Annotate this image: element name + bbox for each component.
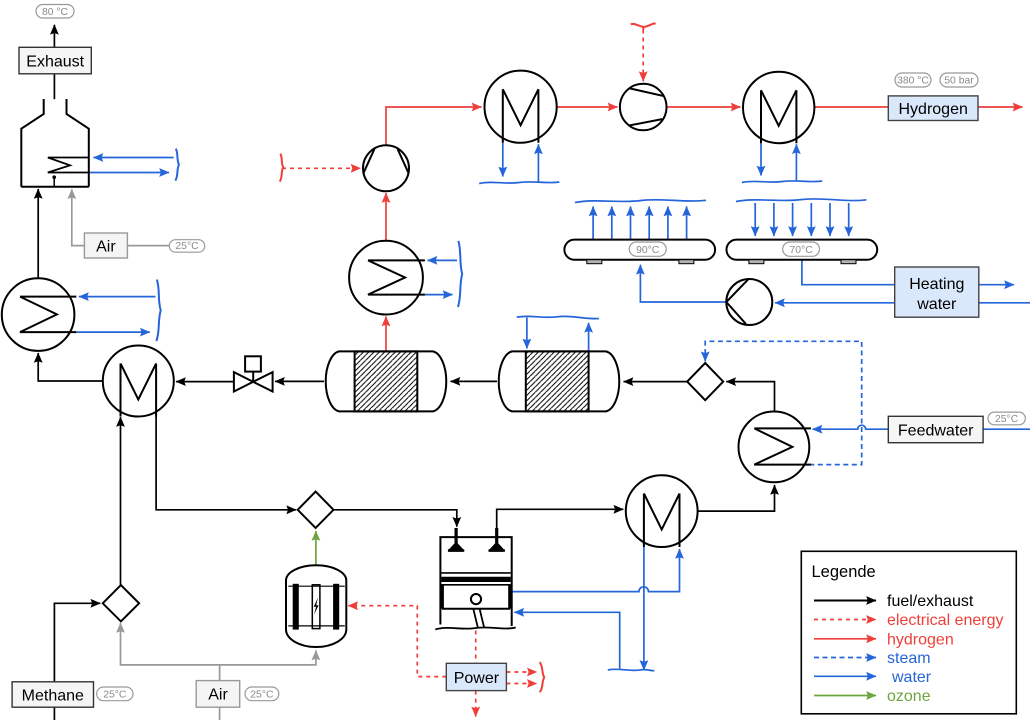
svg-text:25°C: 25°C xyxy=(175,241,199,252)
svg-text:Legende: Legende xyxy=(812,563,876,581)
svg-text:Hydrogen: Hydrogen xyxy=(899,101,968,118)
svg-text:fuel/exhaust: fuel/exhaust xyxy=(887,593,974,610)
svg-text:Air: Air xyxy=(96,239,116,256)
svg-text:380 °C: 380 °C xyxy=(897,76,929,87)
svg-text:Feedwater: Feedwater xyxy=(898,423,974,440)
svg-text:water: water xyxy=(916,296,957,313)
svg-text:Heating: Heating xyxy=(909,276,964,293)
svg-text:25°C: 25°C xyxy=(250,689,274,700)
svg-text:water: water xyxy=(891,669,932,686)
svg-text:Methane: Methane xyxy=(22,688,84,705)
svg-text:Power: Power xyxy=(454,670,500,687)
svg-text:ozone: ozone xyxy=(887,688,931,705)
svg-text:hydrogen: hydrogen xyxy=(887,631,954,648)
svg-text:50 bar: 50 bar xyxy=(944,76,974,87)
svg-text:25°C: 25°C xyxy=(995,414,1019,425)
svg-text:steam: steam xyxy=(887,650,931,667)
svg-text:90°C: 90°C xyxy=(636,245,660,256)
svg-text:Air: Air xyxy=(208,687,228,704)
svg-text:electrical energy: electrical energy xyxy=(887,612,1004,629)
svg-text:25°C: 25°C xyxy=(103,689,127,700)
svg-text:70°C: 70°C xyxy=(789,245,813,256)
svg-text:Exhaust: Exhaust xyxy=(26,53,84,70)
svg-text:80 °C: 80 °C xyxy=(42,7,69,18)
